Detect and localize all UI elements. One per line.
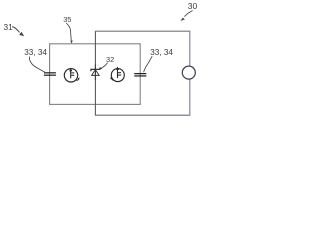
svg-text:30: 30	[188, 1, 198, 11]
svg-text:31: 31	[4, 22, 14, 32]
svg-text:33, 34: 33, 34	[24, 48, 47, 57]
svg-text:32: 32	[106, 55, 114, 64]
svg-text:35: 35	[63, 15, 71, 24]
svg-text:33, 34: 33, 34	[150, 48, 173, 57]
